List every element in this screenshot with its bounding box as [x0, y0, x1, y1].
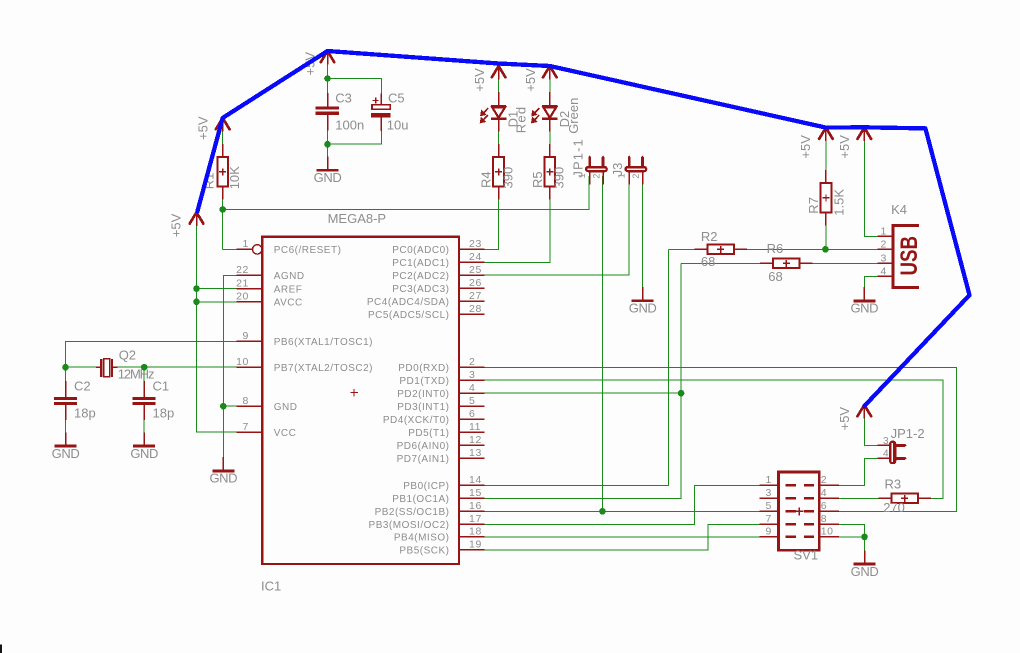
svg-text:1: 1	[616, 173, 626, 178]
svg-text:Green: Green	[566, 98, 581, 134]
svg-text:PD3(INT1): PD3(INT1)	[397, 402, 449, 413]
svg-text:68: 68	[768, 269, 782, 284]
svg-text:PD0(RXD): PD0(RXD)	[398, 363, 449, 374]
svg-text:3: 3	[469, 369, 475, 381]
svg-text:6: 6	[821, 500, 827, 512]
svg-text:5: 5	[766, 500, 772, 512]
svg-text:2: 2	[631, 174, 641, 179]
svg-text:PB7(XTAL2/TOSC2): PB7(XTAL2/TOSC2)	[274, 363, 373, 374]
svg-text:10: 10	[236, 356, 249, 368]
svg-text:13: 13	[469, 447, 482, 459]
svg-text:Q2: Q2	[119, 347, 136, 362]
svg-text:68: 68	[701, 254, 715, 269]
svg-text:C1: C1	[153, 378, 170, 393]
svg-text:1: 1	[766, 474, 772, 486]
svg-text:AGND: AGND	[274, 271, 305, 282]
svg-text:PD1(TXD): PD1(TXD)	[399, 376, 449, 387]
svg-text:C2: C2	[74, 378, 91, 393]
svg-text:IC1: IC1	[261, 578, 281, 593]
svg-text:R4: R4	[479, 171, 494, 188]
svg-text:4: 4	[881, 266, 887, 278]
svg-text:1: 1	[577, 173, 587, 178]
svg-text:27: 27	[469, 290, 482, 302]
svg-text:4: 4	[821, 487, 827, 499]
svg-text:5: 5	[469, 395, 475, 407]
svg-text:PD4(XCK/T0): PD4(XCK/T0)	[383, 415, 450, 426]
svg-text:14: 14	[469, 474, 482, 486]
svg-text:6: 6	[469, 408, 475, 420]
svg-text:10: 10	[821, 525, 834, 537]
svg-text:270: 270	[883, 500, 905, 515]
svg-text:AVCC: AVCC	[274, 298, 303, 309]
svg-text:+5V: +5V	[523, 68, 538, 92]
svg-text:PD5(T1): PD5(T1)	[408, 428, 449, 439]
svg-text:8: 8	[821, 513, 827, 525]
svg-text:PB2(SS/OC1B): PB2(SS/OC1B)	[375, 507, 450, 518]
svg-text:+5V: +5V	[837, 407, 852, 431]
svg-text:PC3(ADC3): PC3(ADC3)	[392, 284, 449, 295]
svg-text:PC2(ADC2): PC2(ADC2)	[392, 271, 449, 282]
svg-text:3: 3	[881, 253, 887, 265]
svg-text:20: 20	[236, 291, 249, 303]
svg-text:C5: C5	[388, 90, 405, 105]
svg-text:PC5(ADC5/SCL): PC5(ADC5/SCL)	[368, 310, 450, 321]
svg-text:1.5K: 1.5K	[831, 189, 846, 216]
svg-text:PD6(AIN0): PD6(AIN0)	[397, 441, 450, 452]
svg-text:Red: Red	[513, 106, 528, 134]
svg-text:R5: R5	[530, 171, 545, 188]
svg-text:7: 7	[243, 421, 249, 433]
svg-text:21: 21	[236, 277, 249, 289]
svg-text:18p: 18p	[153, 406, 175, 421]
svg-text:1: 1	[881, 226, 887, 238]
svg-text:PB6(XTAL1/TOSC1): PB6(XTAL1/TOSC1)	[274, 337, 373, 348]
svg-text:2: 2	[821, 474, 827, 486]
svg-text:R2: R2	[701, 229, 718, 244]
svg-text:28: 28	[469, 303, 482, 315]
svg-text:390: 390	[500, 167, 515, 189]
svg-text:GND: GND	[851, 564, 879, 579]
svg-text:16: 16	[469, 500, 482, 512]
svg-text:JP1-2: JP1-2	[891, 426, 925, 441]
svg-text:10u: 10u	[387, 117, 409, 132]
svg-text:SV1: SV1	[794, 548, 819, 563]
svg-text:22: 22	[236, 264, 249, 276]
svg-text:2: 2	[469, 356, 475, 368]
svg-text:23: 23	[469, 238, 482, 250]
svg-text:9: 9	[243, 330, 249, 342]
svg-text:PD2(INT0): PD2(INT0)	[397, 389, 449, 400]
svg-text:PC1(ADC1): PC1(ADC1)	[392, 258, 449, 269]
svg-text:R6: R6	[767, 241, 784, 256]
svg-text:R7: R7	[806, 197, 821, 214]
svg-text:+5V: +5V	[837, 135, 852, 159]
svg-text:GND: GND	[629, 301, 657, 316]
svg-text:+5V: +5V	[169, 213, 184, 237]
svg-text:12MHz: 12MHz	[118, 367, 154, 382]
svg-text:K4: K4	[891, 202, 907, 217]
svg-text:+5V: +5V	[798, 135, 813, 159]
svg-text:PC4(ADC4/SDA): PC4(ADC4/SDA)	[367, 297, 450, 308]
svg-text:25: 25	[469, 264, 482, 276]
svg-text:1: 1	[243, 238, 249, 250]
svg-text:18p: 18p	[74, 406, 96, 421]
svg-text:GND: GND	[314, 170, 342, 185]
svg-text:17: 17	[469, 513, 482, 525]
svg-text:PB5(SCK): PB5(SCK)	[399, 546, 449, 557]
svg-text:GND: GND	[209, 471, 237, 486]
svg-text:390: 390	[552, 167, 567, 189]
svg-text:7: 7	[766, 513, 772, 525]
svg-text:VCC: VCC	[274, 428, 297, 439]
svg-text:GND: GND	[52, 446, 80, 461]
svg-text:2: 2	[881, 239, 887, 251]
svg-text:MEGA8-P: MEGA8-P	[328, 211, 387, 226]
svg-text:PB1(OC1A): PB1(OC1A)	[392, 494, 449, 505]
svg-text:2: 2	[591, 174, 601, 179]
svg-text:19: 19	[469, 539, 482, 551]
svg-text:GND: GND	[274, 402, 298, 413]
svg-text:100n: 100n	[335, 117, 364, 132]
svg-text:+5V: +5V	[472, 68, 487, 92]
svg-text:3: 3	[766, 487, 772, 499]
svg-text:AREF: AREF	[274, 284, 303, 295]
svg-text:C3: C3	[335, 90, 352, 105]
svg-text:PB4(MISO): PB4(MISO)	[394, 533, 450, 544]
svg-text:R3: R3	[885, 477, 902, 492]
svg-text:USB: USB	[896, 236, 923, 276]
svg-text:GND: GND	[850, 301, 878, 316]
svg-text:GND: GND	[130, 446, 158, 461]
svg-text:JP1-1: JP1-1	[570, 138, 585, 177]
svg-text:24: 24	[469, 251, 482, 263]
svg-text:15: 15	[469, 487, 482, 499]
svg-text:9: 9	[766, 525, 772, 537]
svg-text:4: 4	[469, 382, 475, 394]
svg-text:26: 26	[469, 277, 482, 289]
svg-text:3: 3	[883, 436, 889, 447]
svg-text:18: 18	[469, 526, 482, 538]
svg-text:PC0(ADC0): PC0(ADC0)	[392, 245, 449, 256]
svg-text:PB3(MOSI/OC2): PB3(MOSI/OC2)	[369, 520, 450, 531]
svg-text:10K: 10K	[227, 166, 242, 189]
svg-text:4: 4	[883, 448, 889, 459]
svg-text:12: 12	[469, 434, 482, 446]
svg-text:8: 8	[243, 395, 249, 407]
svg-text:+5V: +5V	[195, 116, 210, 140]
svg-text:11: 11	[469, 421, 481, 433]
svg-text:PB0(ICP): PB0(ICP)	[403, 481, 449, 492]
svg-text:PD7(AIN1): PD7(AIN1)	[397, 454, 450, 465]
svg-text:PC6(/RESET): PC6(/RESET)	[274, 245, 342, 256]
